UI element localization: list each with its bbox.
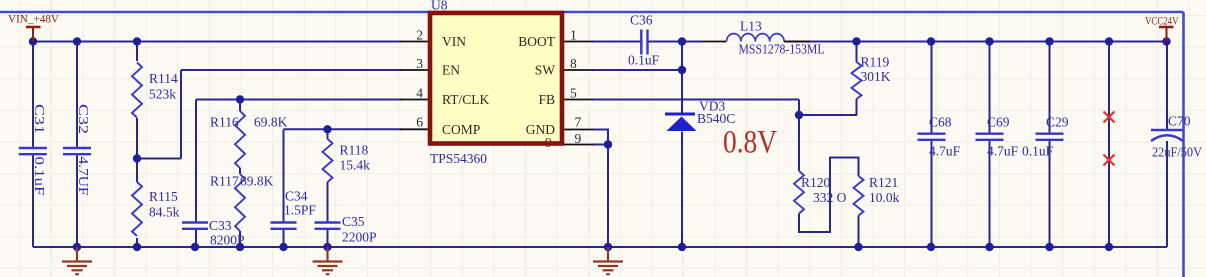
wire C68 column top: [931, 42, 933, 133]
wire R114 top lead: [136, 42, 138, 62]
wire EN to divider: [137, 158, 181, 160]
node gnd rail U8 GND: [604, 243, 612, 251]
node RT/CLK R116: [236, 95, 244, 103]
node rail VCC24V / C70: [1162, 37, 1170, 45]
node gnd rail C33: [191, 243, 199, 251]
wire R115 bottom lead: [136, 238, 138, 247]
wire FB to R119: [799, 114, 857, 116]
ground middle (C35): [313, 247, 343, 274]
wire C36 to SW node: [649, 41, 702, 43]
wire C34 column top: [283, 129, 285, 222]
ground left (C32): [62, 247, 92, 274]
wire BOOT to C36: [592, 41, 641, 43]
node rail R119: [852, 37, 860, 45]
wire top rail VIN to U8 pin2: [33, 41, 401, 43]
node gnd rail R115: [133, 243, 141, 251]
wire C69 column top: [989, 42, 991, 133]
U8 pin stubs right (pins 1,8,5,7,9): [564, 41, 593, 43]
capacitor C70 22uF/50V (polarized): [1151, 114, 1202, 160]
wire SW horizontal: [592, 69, 682, 71]
ground U8 GND: [593, 247, 623, 274]
node gnd rail R117: [236, 243, 244, 251]
svg-text:R121: R121: [869, 175, 898, 190]
wire C31 column top: [32, 42, 34, 148]
wire C32 column bottom: [76, 155, 78, 247]
svg-text:C68: C68: [929, 115, 952, 130]
svg-text:FB: FB: [538, 92, 555, 107]
node R114/R115 EN tap: [133, 154, 141, 162]
svg-text:C35: C35: [342, 214, 365, 229]
wire C29 column bottom: [1049, 141, 1051, 247]
svg-text:C29: C29: [1046, 115, 1069, 130]
svg-text:1.5PF: 1.5PF: [284, 203, 316, 218]
svg-text:69.8K: 69.8K: [240, 174, 274, 189]
svg-text:22uF/50V: 22uF/50V: [1152, 145, 1202, 160]
wire SW node vertical: [681, 42, 683, 114]
wire C70 column bottom: [1166, 141, 1168, 247]
wire R119 bottom lead: [856, 99, 858, 115]
wire R120 bottom jog: [799, 158, 859, 233]
svg-text:4.7uF: 4.7uF: [987, 144, 1019, 159]
wire EN vertical: [180, 70, 182, 159]
wire R118 to C35: [327, 182, 329, 222]
wire C70 column top: [1166, 42, 1168, 130]
node gnd rail C68: [927, 243, 935, 251]
resistor R116 69.8K: [210, 111, 245, 168]
svg-text:4.7UF: 4.7UF: [76, 157, 91, 197]
svg-text:7: 7: [575, 115, 582, 130]
no-fit X mark upper: [1104, 112, 1115, 123]
wire R118 top lead: [327, 129, 329, 139]
capacitor C36 0.1uF: [628, 13, 660, 68]
svg-text:9: 9: [575, 131, 582, 146]
svg-text:SW: SW: [535, 63, 556, 78]
svg-text:TPS54360: TPS54360: [430, 151, 487, 166]
svg-text:R114: R114: [149, 71, 178, 86]
resistor R117 69.8K: [210, 174, 245, 232]
node gnd rail C34: [279, 243, 287, 251]
wire R116 top lead: [239, 100, 241, 112]
node gnd rail C29: [1045, 243, 1053, 251]
node SW / C36: [678, 37, 686, 45]
node SW pin8: [678, 66, 686, 74]
wire R121 bottom lead: [858, 216, 860, 248]
svg-text:332 O: 332 O: [813, 190, 847, 205]
svg-text:15.4k: 15.4k: [340, 158, 371, 173]
svg-text:5: 5: [570, 86, 577, 101]
svg-text:L13: L13: [740, 19, 762, 34]
svg-text:VCC24V: VCC24V: [1145, 16, 1179, 28]
node rail C29: [1045, 37, 1053, 45]
U8 pin stubs left (pins 2,3,4,6): [400, 41, 430, 43]
svg-text:9: 9: [545, 135, 552, 150]
svg-text:MSS1278-153ML: MSS1278-153ML: [739, 42, 825, 57]
resistor R121 10.0k: [854, 175, 900, 216]
capacitor C33 8200P: [182, 218, 245, 248]
node rail C32: [73, 37, 81, 45]
wire diode to ground rail: [681, 132, 683, 248]
svg-text:84.5k: 84.5k: [149, 205, 180, 220]
wire C35 column bottom: [327, 230, 329, 248]
node rail C68: [927, 37, 935, 45]
wire DNP column: [1108, 42, 1110, 248]
svg-text:C36: C36: [630, 13, 653, 28]
wire COMP horizontal: [284, 128, 402, 130]
svg-text:VIN_+48V: VIN_+48V: [8, 14, 60, 26]
wire L13 to VCC rail: [784, 41, 1167, 43]
svg-text:RT/CLK: RT/CLK: [442, 92, 489, 107]
wire RT/CLK horizontal: [196, 99, 401, 101]
node gnd rail C35: [323, 243, 331, 251]
svg-text:C69: C69: [987, 115, 1010, 130]
wire R119 top lead: [856, 42, 858, 63]
svg-text:C32: C32: [76, 104, 91, 134]
svg-text:0.1uF: 0.1uF: [1022, 144, 1054, 159]
wire GND pin9: [592, 144, 608, 146]
svg-text:6: 6: [416, 115, 423, 130]
svg-text:0.1uF: 0.1uF: [32, 157, 47, 197]
node gnd rail VD3: [678, 243, 686, 251]
svg-text:BOOT: BOOT: [518, 34, 556, 49]
wire bottom ground rail: [33, 246, 1167, 248]
capacitor C68 4.7uF: [918, 115, 961, 159]
svg-text:C33: C33: [209, 218, 232, 233]
capacitor C34 1.5PF: [271, 189, 317, 229]
node gnd rail DNP: [1105, 243, 1113, 251]
wire R117 bottom lead: [239, 231, 241, 247]
wire C32 column top: [76, 42, 78, 148]
node FB divider: [795, 111, 803, 119]
svg-text:0.1uF: 0.1uF: [628, 53, 660, 68]
wire C33 column top: [195, 100, 197, 223]
wire C69 column bottom: [989, 141, 991, 247]
svg-text:C34: C34: [285, 189, 308, 204]
capacitor C69 4.7uF: [976, 115, 1019, 159]
svg-text:0.8V: 0.8V: [723, 125, 777, 161]
resistor R119 301K: [852, 55, 891, 100]
svg-text:301K: 301K: [861, 69, 891, 84]
svg-text:2200P: 2200P: [342, 230, 377, 245]
node COMP R118: [323, 125, 331, 133]
capacitor C32 4.7UF: [63, 104, 91, 196]
wire R114-R115 link: [136, 118, 138, 182]
svg-text:R115: R115: [149, 189, 178, 204]
wire GND pin7: [592, 130, 608, 145]
svg-text:COMP: COMP: [442, 122, 480, 137]
svg-text:R118: R118: [340, 143, 369, 158]
wire EN horizontal: [181, 69, 401, 71]
capacitor C31 0.1uF: [19, 104, 47, 196]
power port VCC24V: [1159, 27, 1174, 42]
wire FB down: [798, 100, 800, 116]
svg-text:1: 1: [570, 28, 577, 43]
svg-text:8: 8: [570, 56, 577, 71]
node gnd rail C69: [985, 243, 993, 251]
svg-text:3: 3: [416, 56, 423, 71]
node gnd rail R121: [854, 243, 862, 251]
wire C68 column bottom: [931, 141, 933, 247]
wire R116-R117 link: [239, 168, 241, 174]
sheet border right: [1182, 12, 1185, 277]
power port VIN_+48V: [26, 27, 41, 42]
svg-text:R120: R120: [801, 175, 831, 190]
svg-text:VIN: VIN: [442, 34, 466, 49]
svg-text:8200P: 8200P: [210, 233, 245, 248]
wire GND column: [607, 145, 609, 248]
svg-text:523k: 523k: [149, 87, 176, 102]
node rail DNP: [1105, 37, 1113, 45]
wire FB horizontal: [592, 99, 799, 101]
node rail C69: [985, 37, 993, 45]
sheet border top: [0, 11, 1184, 14]
resistor R115 84.5k: [132, 182, 180, 236]
inductor L13 MSS1278-153ML: [701, 19, 825, 57]
svg-text:R117: R117: [210, 174, 239, 189]
wire C33 column bottom: [195, 230, 197, 248]
svg-text:R116: R116: [210, 115, 239, 130]
resistor R120 332R: [794, 171, 847, 214]
svg-text:EN: EN: [442, 63, 460, 78]
svg-text:4.7uF: 4.7uF: [929, 144, 961, 159]
svg-text:69.8K: 69.8K: [254, 115, 288, 130]
node GND pins 7/9: [604, 140, 612, 148]
svg-text:R119: R119: [861, 55, 890, 70]
svg-text:10.0k: 10.0k: [869, 190, 900, 205]
diode VD3 B540C: [665, 99, 735, 132]
svg-text:2: 2: [416, 28, 423, 43]
wire C31 column bottom: [32, 155, 34, 247]
svg-text:C70: C70: [1168, 114, 1191, 129]
svg-text:U8: U8: [431, 0, 448, 13]
capacitor C35 2200P: [315, 214, 377, 245]
wire C29 column top: [1049, 42, 1051, 133]
node rail R114: [133, 37, 141, 45]
resistor R114 523k: [132, 63, 178, 118]
no-fit X mark lower: [1104, 155, 1115, 166]
node VIN rail / C31: [29, 37, 37, 45]
svg-text:4: 4: [416, 86, 423, 101]
wire FB to R120: [798, 115, 800, 171]
op-amp U8 TPS54360 body: [430, 0, 562, 166]
capacitor C29 0.1uF: [1022, 115, 1069, 159]
wire C34 column bottom: [283, 230, 285, 248]
resistor R118 15.4k: [323, 139, 371, 182]
svg-text:C31: C31: [32, 104, 47, 134]
node gnd rail C32: [73, 243, 81, 251]
